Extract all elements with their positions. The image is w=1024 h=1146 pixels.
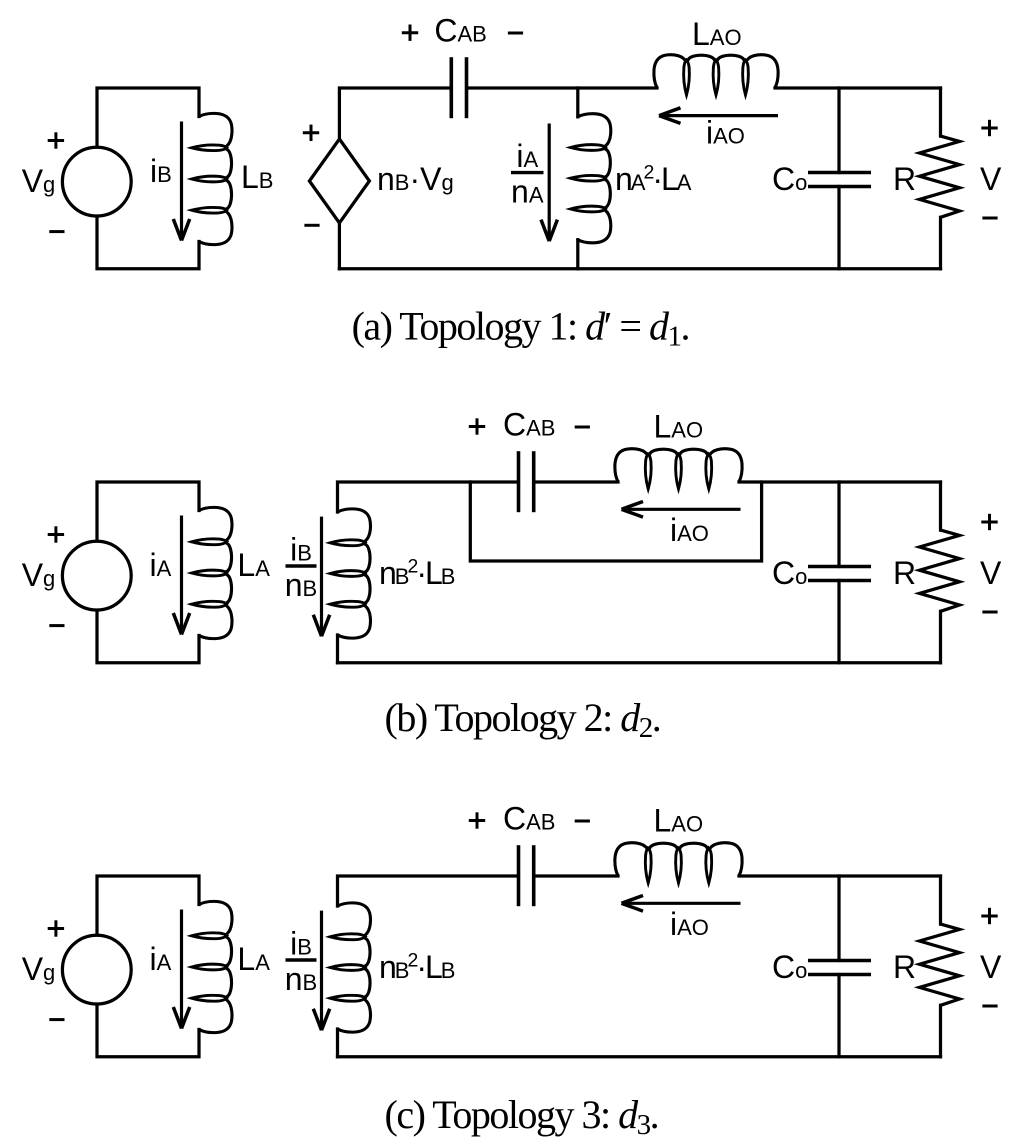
plus sign of CAB (c) bbox=[469, 812, 485, 828]
wire: Co branch lower bbox=[837, 187, 840, 269]
label fraction iB/nB (c) bbox=[285, 926, 317, 998]
svg-text:(a) Topology 1: d′ = d1.: (a) Topology 1: d′ = d1. bbox=[352, 303, 689, 352]
plus sign of CAB (b) bbox=[469, 418, 485, 434]
svg-text:V: V bbox=[980, 161, 1002, 197]
minus sign of V bbox=[982, 611, 997, 614]
wire: (a) bottom rail bbox=[339, 267, 940, 270]
wire: (a) top left to CAB bbox=[339, 88, 451, 139]
inductor nB^2*LB (b) bbox=[330, 509, 370, 638]
wire: (c) CAB to LAO bbox=[534, 874, 618, 877]
wire: (b) CAB to LAO bbox=[534, 480, 618, 483]
wire: (c) bottom rail bbox=[338, 1055, 941, 1058]
svg-text:R: R bbox=[893, 555, 916, 591]
svg-text:R: R bbox=[893, 949, 916, 985]
wire: Co branch upper bbox=[837, 876, 840, 961]
wire: (a) CAB to LAO bbox=[467, 86, 657, 89]
plus sign of V bbox=[981, 120, 997, 136]
wire: Co branch upper bbox=[837, 88, 840, 173]
inductor LA bbox=[192, 901, 232, 1032]
inductor nB^2*LB (c) bbox=[330, 903, 370, 1032]
minus sign of Vg bbox=[49, 624, 64, 627]
current arrow iB bbox=[173, 122, 189, 241]
wire: R branch upper bbox=[939, 482, 942, 530]
voltage source Vg bbox=[62, 147, 131, 216]
resistor R bbox=[920, 924, 960, 1005]
current arrow iA bbox=[173, 516, 189, 635]
wire: source loop top bbox=[97, 482, 199, 541]
svg-text:R: R bbox=[893, 161, 916, 197]
wire: (a) LAO to right edge bbox=[775, 86, 941, 89]
plus sign of Vg bbox=[48, 920, 64, 936]
wire: source loop bottom bbox=[97, 216, 199, 269]
voltage source Vg bbox=[62, 541, 131, 610]
plus sign of V bbox=[981, 908, 997, 924]
inductor LB bbox=[192, 113, 232, 244]
resistor R bbox=[920, 530, 960, 611]
inductor LA bbox=[192, 507, 232, 638]
wire: (a) branch lower bbox=[576, 240, 579, 269]
svg-text:V: V bbox=[980, 949, 1002, 985]
wire: (b) second loop lower bbox=[336, 635, 339, 663]
wire: source loop bottom bbox=[97, 1004, 199, 1057]
inductor LAO (b) bbox=[615, 449, 742, 489]
minus sign of Vg bbox=[49, 230, 64, 233]
capacitor CAB (a) bbox=[451, 57, 466, 118]
dependent source nB*Vg bbox=[309, 139, 369, 223]
minus sign of V bbox=[982, 217, 997, 220]
plus sign of Vg bbox=[48, 526, 64, 542]
wire: (b) bottom rail bbox=[338, 661, 941, 664]
current arrow iAO (a) bbox=[659, 108, 778, 124]
minus sign of dependent source bbox=[304, 224, 319, 227]
wire: R branch upper bbox=[939, 88, 942, 136]
wire: R branch lower bbox=[939, 217, 942, 268]
wire: R branch upper bbox=[939, 876, 942, 924]
resistor R bbox=[920, 136, 960, 217]
wire: (a) below dependent source bbox=[338, 223, 341, 269]
current arrow iB/nB (b) bbox=[313, 517, 329, 637]
minus sign of CAB (b) bbox=[575, 426, 590, 429]
svg-text:(c) Topology 3: d3.: (c) Topology 3: d3. bbox=[385, 1092, 659, 1141]
inductor LAO (a) bbox=[654, 55, 778, 95]
current arrow iA bbox=[173, 910, 189, 1029]
svg-text:(b) Topology 2: d2.: (b) Topology 2: d2. bbox=[385, 695, 661, 744]
capacitor Co bbox=[808, 567, 871, 581]
current arrow iA/nA bbox=[541, 124, 557, 242]
wire: (c) LAO to right edge bbox=[739, 874, 941, 877]
wire: (c) second loop lower bbox=[336, 1029, 339, 1057]
wire: (b) second loop top bbox=[338, 482, 519, 512]
minus sign of CAB (a) bbox=[508, 32, 523, 35]
plus sign of Vg bbox=[48, 132, 64, 148]
minus sign of CAB (c) bbox=[575, 820, 590, 823]
capacitor CAB (c) bbox=[519, 845, 534, 906]
wire: Co branch lower bbox=[837, 581, 840, 663]
label fraction iB/nB (b) bbox=[285, 532, 317, 604]
plus sign of CAB (a) bbox=[402, 25, 418, 41]
minus sign of Vg bbox=[49, 1018, 64, 1021]
wire: (a) branch upper bbox=[576, 88, 579, 117]
wire: Co branch lower bbox=[837, 975, 840, 1057]
wire: R branch lower bbox=[939, 611, 942, 663]
capacitor CAB (b) bbox=[519, 451, 534, 512]
wire: source loop top bbox=[97, 876, 199, 935]
plus sign of dependent source bbox=[303, 125, 319, 141]
voltage source Vg bbox=[62, 935, 131, 1004]
wire: source loop top bbox=[97, 88, 199, 147]
wire: (b) LAO to right edge bbox=[739, 480, 941, 483]
wire: (c) second loop top bbox=[338, 876, 519, 906]
wire: Co branch upper bbox=[837, 482, 840, 567]
current arrow iB/nB (c) bbox=[313, 911, 329, 1031]
current arrow iAO (c) bbox=[622, 896, 741, 912]
capacitor Co bbox=[808, 961, 871, 975]
label fraction iA/nA bbox=[511, 138, 544, 210]
current arrow iAO (b) bbox=[622, 502, 741, 518]
inductor LAO (c) bbox=[615, 843, 742, 883]
inductor nA^2*LA bbox=[571, 114, 611, 243]
minus sign of V bbox=[982, 1005, 997, 1008]
wire: source loop bottom bbox=[97, 610, 199, 663]
svg-text:V: V bbox=[980, 555, 1002, 591]
capacitor Co bbox=[808, 173, 871, 187]
wire: (b) bypass loop bbox=[470, 482, 761, 561]
plus sign of V bbox=[981, 514, 997, 530]
wire: R branch lower bbox=[939, 1005, 942, 1057]
